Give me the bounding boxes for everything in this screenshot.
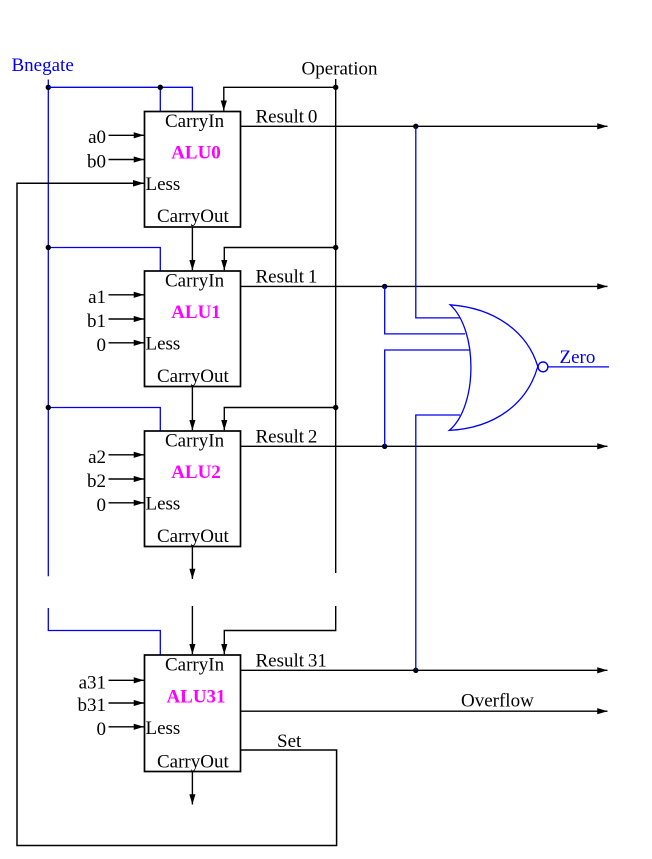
wire branch to ALU0 Binvert [159,87,161,111]
wire CarryOut ALU0 to CarryIn ALU1 [191,227,193,270]
wire b1 input [109,318,145,320]
svg-text:0: 0 [97,719,107,740]
wire a0 input [109,134,145,136]
wire CarryOut ALU1 to CarryIn ALU2 [191,387,193,431]
wire Overflow [241,710,608,712]
svg-text:a31: a31 [79,672,106,693]
svg-text:Less: Less [146,494,181,515]
wire a1 input [109,294,145,296]
wire 0 to Less ALU1 [109,342,145,344]
wire CarryOut ALU31 dangling arrow [191,772,193,805]
wire Bnegate vertical stub [47,80,49,88]
node Result1 junction [382,284,387,289]
svg-text:CarryOut: CarryOut [157,206,229,227]
wire CarryOut ALU2 dangling arrow [191,547,193,580]
svg-text:ALU31: ALU31 [166,687,225,708]
svg-text:b1: b1 [87,311,106,332]
node Result31 junction [413,668,418,673]
svg-text:Result 0: Result 0 [256,107,318,128]
svg-text:Operation: Operation [302,59,378,80]
wire Result1 to NOR input 2 [385,286,465,334]
svg-text:CarryIn: CarryIn [165,111,225,132]
svg-text:CarryIn: CarryIn [165,430,225,451]
wire b0 input [109,159,145,161]
svg-text:Overflow: Overflow [461,691,534,712]
svg-text:CarryOut: CarryOut [157,526,229,547]
wire Bnegate main vertical (upper) [47,87,49,576]
node Operation corner [333,85,338,90]
svg-text:Less: Less [146,718,181,739]
wire Bnegate branch to ALU1 Binvert [48,248,160,272]
wire Operation to ALU0 [224,87,336,111]
svg-text:Less: Less [146,334,181,355]
svg-text:CarryIn: CarryIn [165,270,225,291]
NOR gate U1 body [449,305,538,431]
svg-text:ALU1: ALU1 [171,302,221,323]
wire Bnegate vertical (lower, after ellipsis) to ALU31 Binvert [48,608,160,655]
ALU31 box [145,655,241,772]
svg-text:CarryIn: CarryIn [165,654,225,675]
wire Result2 [241,445,608,447]
svg-text:b0: b0 [87,151,106,172]
svg-text:b31: b31 [78,695,107,716]
wire Operation vertical (upper) [335,87,337,573]
wire 0 to Less ALU31 [109,726,145,728]
node junction on Bnegate feed [158,85,163,90]
svg-text:a1: a1 [88,287,106,308]
wire Zero output [548,366,609,368]
wire Operation vertical (lower) to ALU31 [224,606,335,654]
wire Operation to ALU1 [224,248,335,271]
svg-text:CarryOut: CarryOut [157,752,229,773]
wire a2 input [109,454,145,456]
svg-text:Result 1: Result 1 [256,267,318,288]
node Result2 junction [382,444,387,449]
wire 0 to Less ALU2 [109,502,145,504]
wire Result0 [241,125,608,127]
node Bnegate junction row1 [46,245,51,250]
svg-text:ALU2: ALU2 [171,462,221,483]
wire Less0 input from Set wrap-around [17,183,337,845]
svg-text:Set: Set [277,731,302,752]
wire Result2 to NOR input 3 [385,350,471,446]
ALU2 box [145,431,241,547]
svg-text:ALU0: ALU0 [171,143,221,164]
svg-text:b2: b2 [87,471,106,492]
NOR gate U1 output bubble [538,362,548,372]
wire Bnegate branch to ALU2 Binvert [48,408,160,432]
svg-text:Less: Less [146,174,181,195]
node Bnegate corner [46,85,51,90]
svg-text:Zero: Zero [560,347,596,368]
ALU1 box [145,271,241,387]
wire Bnegate to ALU0 CarryIn [48,87,192,111]
wire Result31 to NOR input 4 [416,415,460,670]
node Bnegate junction row2 [46,405,51,410]
svg-text:Result 31: Result 31 [256,651,327,672]
wire Result31 [241,669,608,671]
svg-text:0: 0 [97,335,107,356]
wire Result0 to NOR input 1 [416,126,460,318]
wire b31 input [109,702,145,704]
svg-text:Bnegate: Bnegate [12,55,74,76]
ALU0 box [145,112,241,228]
wire Result1 [241,285,608,287]
svg-text:a2: a2 [88,447,106,468]
svg-text:Result 2: Result 2 [256,427,318,448]
node Operation junction row2 [333,405,338,410]
wire b2 input [109,478,145,480]
svg-text:a0: a0 [88,127,106,148]
wire Operation to ALU2 [224,408,335,431]
svg-text:0: 0 [97,495,107,516]
wire CarryIn ALU31 arrow from ellipsis [191,606,193,654]
wire Operation vertical stub [335,79,337,87]
node Operation junction row1 [333,245,338,250]
node Result0 junction [413,124,418,129]
svg-text:CarryOut: CarryOut [157,366,229,387]
wire a31 input [109,679,145,681]
